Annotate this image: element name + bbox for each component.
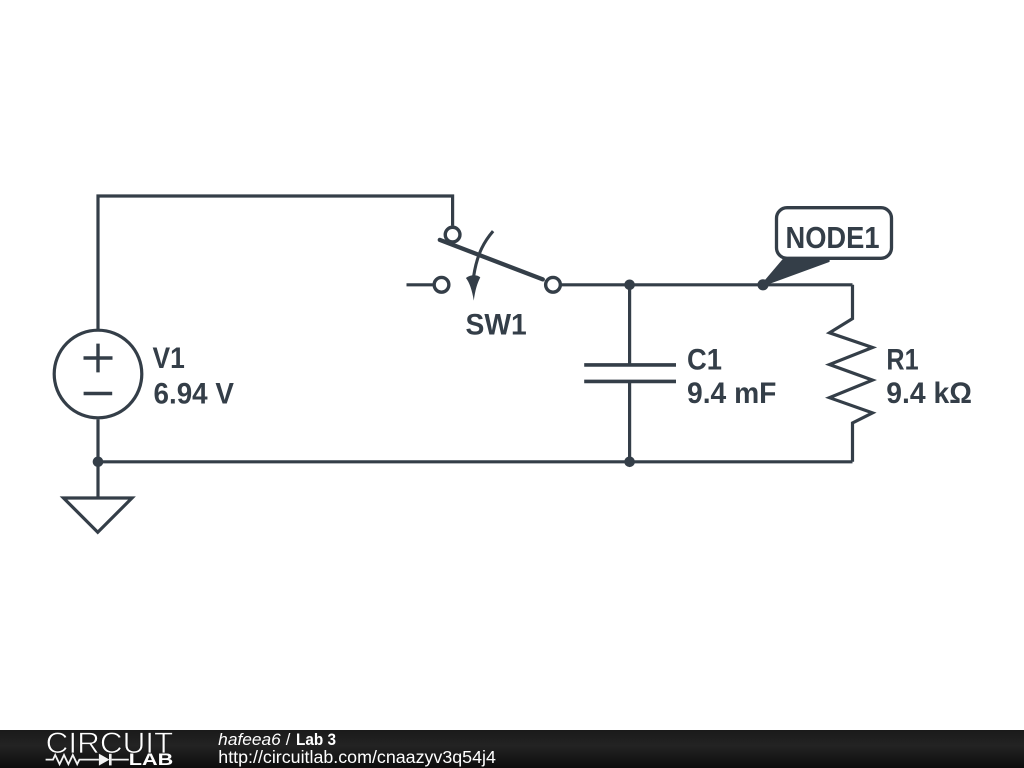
resistor R1 with leads (zigzag) (830, 285, 873, 462)
junction dot capacitor top (624, 280, 635, 291)
switch SW1 arrow head (466, 275, 480, 300)
ground stub wire (96, 462, 99, 498)
node label NODE1 callout box (777, 208, 892, 259)
CircuitLab logo schematic line with resistor and diode (46, 754, 129, 766)
capacitor C1 top plate (584, 363, 676, 367)
switch SW1 left contact circle (434, 277, 449, 292)
footer bar (0, 730, 1024, 768)
svg-text:C1: C1 (687, 344, 722, 377)
node dot NODE1 (757, 279, 768, 290)
capacitor C1 bottom plate (584, 380, 676, 384)
svg-text:NODE1: NODE1 (786, 221, 880, 255)
svg-text:LAB: LAB (129, 751, 174, 768)
switch SW1 left stub wire (407, 283, 433, 286)
svg-text:9.4 mF: 9.4 mF (687, 377, 776, 410)
svg-text:http://circuitlab.com/cnaazyv3: http://circuitlab.com/cnaazyv3q54j4 (218, 747, 496, 767)
svg-text:R1: R1 (886, 343, 918, 376)
capacitor C1 bottom lead (628, 383, 631, 462)
switch SW1 actuation arrow arc (474, 231, 493, 276)
wire mid rail from switch to resistor corner (560, 283, 852, 286)
junction dot V1 bottom (93, 457, 104, 468)
V1 plus sign (84, 344, 113, 373)
wire V1 bottom lead (96, 419, 99, 461)
junction dot capacitor bottom (624, 457, 635, 468)
voltage source V1 circle (54, 330, 142, 418)
switch SW1 top contact circle (445, 227, 460, 242)
svg-text:6.94 V: 6.94 V (154, 378, 235, 411)
switch SW1 right contact circle (546, 277, 561, 292)
V1 minus sign (84, 392, 113, 396)
switch SW1 blade (440, 240, 543, 280)
svg-text:V1: V1 (153, 342, 185, 375)
capacitor C1 top lead (628, 285, 631, 364)
node NODE1 pointer wedge (762, 259, 828, 286)
wire top loop from V1+ to switch (98, 196, 453, 331)
svg-text:SW1: SW1 (466, 309, 527, 342)
ground symbol triangle (64, 498, 133, 532)
wire bottom rail (98, 460, 853, 463)
svg-text:9.4 kΩ: 9.4 kΩ (886, 377, 972, 410)
CircuitLab logo diode triangle (99, 754, 110, 766)
